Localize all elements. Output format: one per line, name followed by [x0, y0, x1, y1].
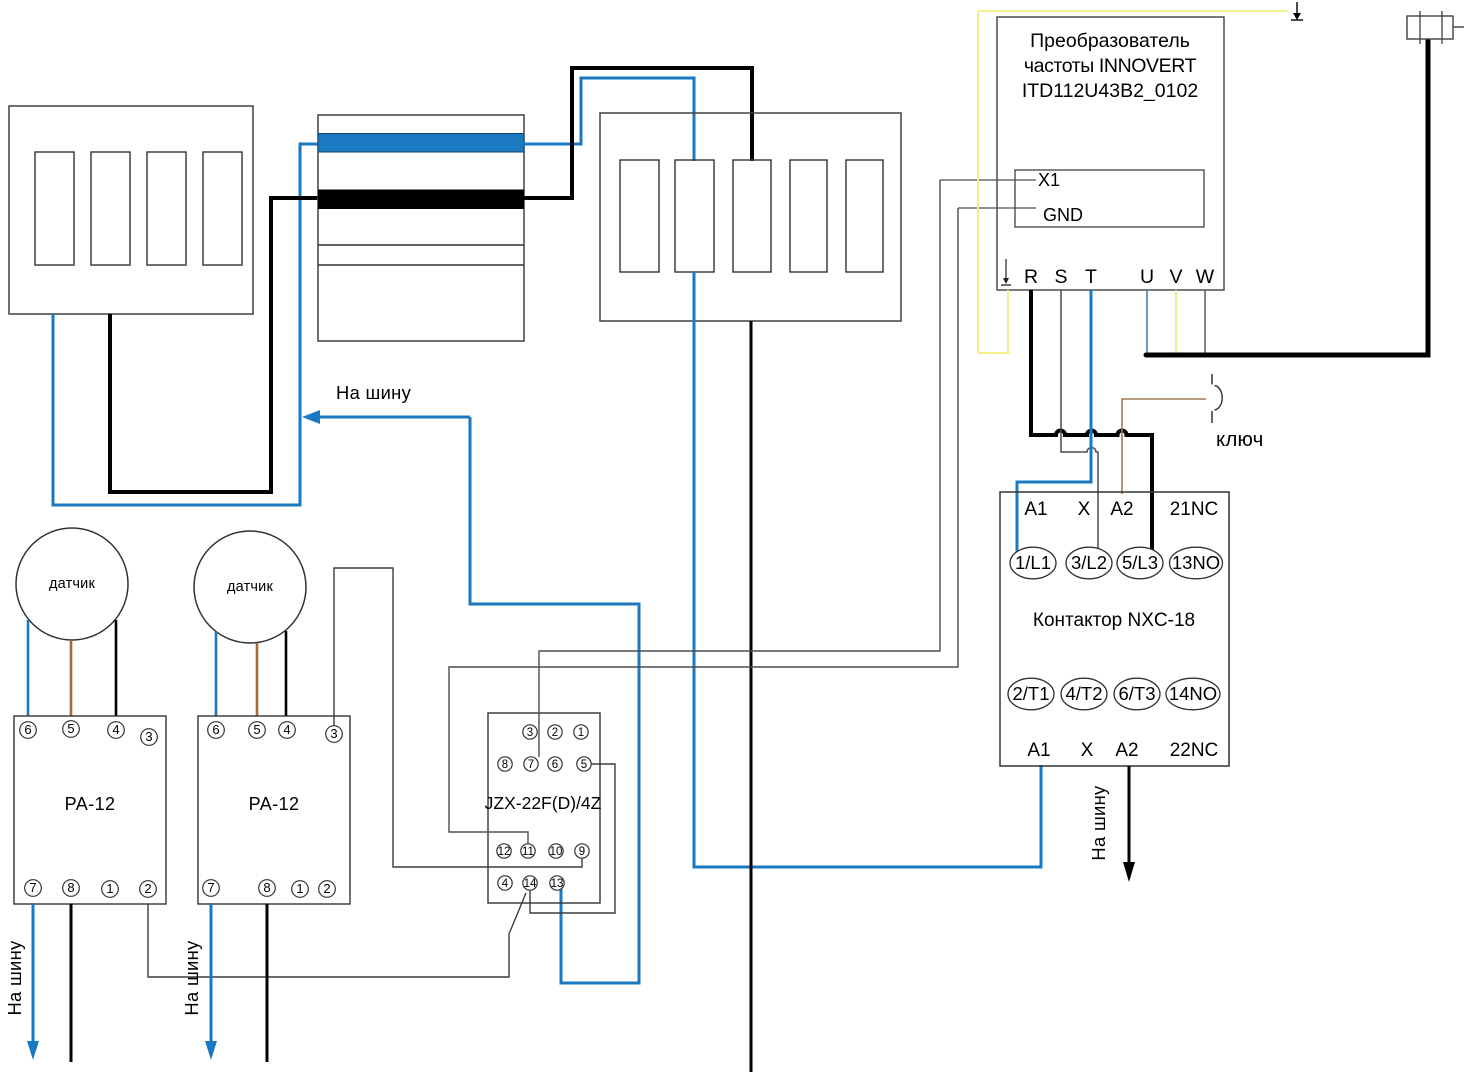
- svg-text:5: 5: [253, 722, 260, 737]
- svg-text:1: 1: [296, 881, 303, 896]
- svg-text:На шину: На шину: [336, 382, 412, 403]
- svg-text:22NC: 22NC: [1170, 740, 1219, 761]
- svg-text:W: W: [1196, 266, 1215, 288]
- svg-text:7: 7: [528, 759, 534, 771]
- svg-text:A1: A1: [1027, 740, 1050, 761]
- svg-text:частоты INNOVERT: частоты INNOVERT: [1024, 55, 1197, 77]
- svg-text:ITD112U43B2_0102: ITD112U43B2_0102: [1022, 80, 1198, 102]
- svg-text:4: 4: [283, 722, 290, 737]
- svg-text:13NO: 13NO: [1172, 552, 1220, 573]
- svg-text:3: 3: [145, 729, 152, 744]
- svg-text:3: 3: [330, 726, 337, 741]
- svg-text:5: 5: [67, 721, 74, 736]
- svg-text:V: V: [1169, 266, 1182, 288]
- svg-text:На шину: На шину: [4, 940, 25, 1016]
- svg-text:2/T1: 2/T1: [1012, 683, 1049, 704]
- svg-text:6: 6: [212, 722, 219, 737]
- svg-text:A1: A1: [1024, 499, 1047, 520]
- svg-text:Преобразователь: Преобразователь: [1030, 30, 1190, 52]
- svg-text:3: 3: [527, 727, 533, 739]
- svg-text:8: 8: [502, 759, 508, 771]
- svg-text:8: 8: [67, 880, 74, 895]
- svg-text:X1: X1: [1038, 170, 1060, 190]
- svg-text:11: 11: [522, 846, 534, 858]
- svg-text:2: 2: [144, 881, 151, 896]
- svg-text:1: 1: [106, 881, 113, 896]
- svg-text:10: 10: [550, 846, 563, 858]
- svg-text:датчик: датчик: [49, 576, 96, 592]
- svg-text:21NC: 21NC: [1170, 499, 1219, 520]
- svg-text:На шину: На шину: [181, 940, 202, 1016]
- svg-text:R: R: [1024, 266, 1038, 288]
- svg-text:12: 12: [498, 846, 511, 858]
- svg-text:A2: A2: [1115, 740, 1138, 761]
- svg-text:датчик: датчик: [227, 579, 274, 595]
- svg-text:1/L1: 1/L1: [1015, 552, 1051, 573]
- svg-text:4: 4: [502, 878, 509, 890]
- svg-text:6/T3: 6/T3: [1118, 683, 1155, 704]
- svg-text:Контактор NXC-18: Контактор NXC-18: [1033, 610, 1195, 631]
- svg-text:РА-12: РА-12: [65, 794, 116, 814]
- svg-text:2: 2: [323, 881, 330, 896]
- svg-text:13: 13: [551, 878, 564, 890]
- svg-text:7: 7: [29, 880, 36, 895]
- svg-text:T: T: [1085, 266, 1097, 288]
- svg-text:3/L2: 3/L2: [1071, 552, 1107, 573]
- svg-text:8: 8: [263, 880, 270, 895]
- svg-text:S: S: [1054, 266, 1067, 288]
- svg-text:1: 1: [578, 727, 584, 739]
- svg-text:7: 7: [207, 880, 214, 895]
- svg-text:6: 6: [24, 722, 31, 737]
- svg-text:JZX-22F(D)/4Z: JZX-22F(D)/4Z: [485, 793, 602, 813]
- svg-text:9: 9: [579, 846, 585, 858]
- svg-text:2: 2: [552, 727, 558, 739]
- svg-text:ключ: ключ: [1216, 428, 1264, 451]
- svg-text:GND: GND: [1043, 205, 1083, 225]
- svg-text:На шину: На шину: [1088, 785, 1109, 861]
- svg-text:U: U: [1140, 266, 1154, 288]
- svg-text:РА-12: РА-12: [249, 794, 300, 814]
- svg-text:4: 4: [112, 722, 119, 737]
- svg-text:X: X: [1081, 740, 1094, 761]
- svg-text:A2: A2: [1110, 499, 1133, 520]
- svg-text:X: X: [1078, 499, 1091, 520]
- svg-text:5: 5: [581, 759, 587, 771]
- svg-text:14NO: 14NO: [1169, 683, 1217, 704]
- svg-text:6: 6: [552, 759, 558, 771]
- svg-text:5/L3: 5/L3: [1122, 552, 1158, 573]
- svg-text:14: 14: [524, 878, 537, 890]
- svg-text:4/T2: 4/T2: [1065, 683, 1102, 704]
